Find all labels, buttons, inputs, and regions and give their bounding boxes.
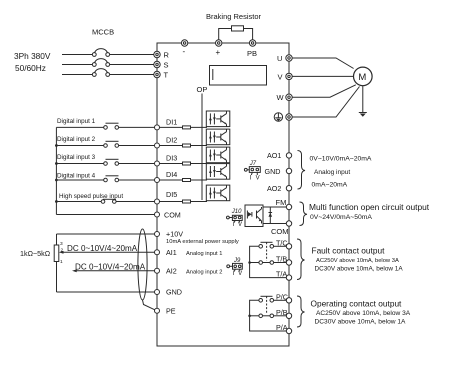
relay T contacts: [250, 242, 286, 277]
svg-text:+10V: +10V: [166, 230, 183, 239]
label AC250V operating: [316, 310, 411, 317]
label Digital input 3: [57, 154, 96, 161]
shield ellipse: [138, 229, 147, 300]
svg-text:10mA external power supply: 10mA external power supply: [166, 239, 239, 245]
wire common rail left: [55, 127, 57, 214]
wire motor to ground: [362, 86, 364, 113]
diode FM clamp: [269, 207, 273, 224]
terminal +10V: [155, 232, 160, 237]
jumper J9: [227, 263, 243, 271]
svg-text:1kΩ~5kΩ: 1kΩ~5kΩ: [20, 249, 51, 258]
terminal DI3: [155, 161, 160, 166]
wire FM output top: [263, 206, 286, 208]
jumper J10: [227, 215, 243, 222]
svg-text:DC 0~10V/4~20mA: DC 0~10V/4~20mA: [67, 244, 138, 253]
svg-text:Operating contact output: Operating contact output: [311, 299, 403, 309]
svg-text:Analog input: Analog input: [314, 169, 350, 176]
label DC30V fault: [315, 265, 404, 272]
wire AI1 row with wiper arrow: [59, 251, 155, 254]
node OP: [197, 85, 208, 94]
label AC250V fault: [316, 258, 399, 264]
terminal plus: [216, 40, 222, 46]
label 0mA~20mA: [312, 181, 348, 188]
resistor braking: [232, 26, 244, 31]
brace fault contact: [297, 239, 305, 280]
switch digital input 4: [56, 176, 154, 182]
svg-text:AO1: AO1: [267, 151, 281, 160]
ground symbol in circle: [274, 113, 282, 121]
terminal DI5: [155, 199, 160, 204]
wire FM output bottom: [263, 223, 286, 225]
terminal AI1: [155, 250, 160, 255]
junction rail DI5: [55, 200, 58, 203]
svg-text:T/A: T/A: [276, 270, 287, 279]
potentiometer 1k-5k: [54, 234, 59, 292]
terminal COM left: [155, 212, 160, 217]
label DC30V operating: [315, 318, 407, 325]
svg-text:AC250V above 10mA, below 3A: AC250V above 10mA, below 3A: [316, 258, 399, 264]
terminal T/A: [286, 275, 291, 280]
svg-text:Braking Resistor: Braking Resistor: [206, 12, 262, 21]
wire earth to motor: [292, 87, 359, 118]
label 3Ph 380V / 50/60Hz: [14, 51, 51, 73]
svg-text:0V~10V/0mA~20mA: 0V~10V/0mA~20mA: [310, 156, 372, 163]
resistor DI4: [160, 179, 208, 182]
terminal minus: [181, 40, 187, 46]
svg-text:GND: GND: [265, 167, 281, 176]
svg-text:M: M: [358, 72, 366, 83]
breaker MCCB pole 1: [92, 49, 109, 57]
svg-text:T/B: T/B: [276, 255, 287, 264]
opto-coupler DI4: [206, 164, 230, 180]
wire braking resistor loop: [219, 29, 253, 43]
wire supply phase T: [62, 74, 154, 76]
svg-text:DC 0~10V/4~20mA: DC 0~10V/4~20mA: [75, 263, 146, 272]
svg-text:DI4: DI4: [166, 170, 177, 179]
opto-coupler DI5: [206, 185, 230, 201]
terminal W: [286, 94, 292, 100]
wire AI2 row with arrow: [72, 269, 155, 272]
svg-text:I: I: [250, 176, 252, 182]
svg-text:Analog input 2: Analog input 2: [186, 270, 222, 276]
breaker MCCB pole 3: [92, 69, 109, 77]
junction rail DI2: [55, 144, 58, 147]
label Operating contact output: [311, 299, 403, 309]
svg-text:DI5: DI5: [166, 190, 177, 199]
terminal PB: [249, 40, 255, 46]
terminal P/C: [286, 298, 291, 303]
terminal AI2: [155, 268, 160, 273]
label Multi function open circuit output: [309, 202, 430, 212]
terminal FM: [286, 204, 291, 209]
terminal U: [286, 55, 292, 61]
svg-text:R: R: [164, 51, 170, 60]
ground motor: [359, 113, 367, 117]
svg-text:AC250V above 10mA, below 3A: AC250V above 10mA, below 3A: [316, 310, 411, 317]
switch digital input 2: [56, 141, 154, 147]
label Digital input 1: [57, 118, 96, 125]
terminal V: [286, 73, 292, 79]
svg-text:T/C: T/C: [276, 238, 288, 247]
breaker MCCB label: [92, 28, 114, 37]
svg-text:J7: J7: [249, 161, 257, 167]
motor M: [354, 67, 373, 86]
svg-text:P/A: P/A: [276, 323, 288, 332]
terminal P/A: [286, 328, 291, 333]
brace operating contact: [297, 296, 305, 327]
wire W to motor: [292, 85, 356, 97]
terminal AO1: [286, 153, 291, 158]
jumper J7: [244, 167, 260, 175]
label High speed pulse input: [59, 193, 123, 200]
label 0V~24V/0mA~50mA: [310, 214, 372, 221]
svg-text:Multi function open circuit ou: Multi function open circuit output: [309, 202, 430, 212]
wire supply phase S: [62, 64, 154, 66]
svg-text:Digital input 2: Digital input 2: [57, 136, 96, 143]
terminal GND left: [155, 290, 160, 295]
terminal T/B: [286, 260, 291, 265]
terminal COM right: [286, 221, 291, 226]
svg-text:3: 3: [60, 241, 63, 247]
terminal AO2: [286, 186, 291, 191]
switch digital input 1: [56, 123, 154, 129]
label Fault contact output: [312, 246, 386, 256]
svg-text:V: V: [278, 72, 283, 81]
resistor DI2: [160, 144, 208, 147]
switch digital input 3: [56, 159, 154, 165]
opto-coupler DI2: [206, 129, 230, 145]
terminal PE: [155, 308, 160, 313]
wire OP rail: [201, 94, 203, 201]
svg-text:P/C: P/C: [276, 292, 288, 301]
pot pin 1: [60, 259, 63, 265]
svg-text:FM: FM: [276, 198, 287, 207]
inverter main outline: [157, 43, 289, 346]
label Braking Resistor: [206, 12, 262, 21]
svg-text:T: T: [164, 71, 169, 80]
svg-text:DI3: DI3: [166, 154, 177, 163]
svg-text:DI2: DI2: [166, 136, 177, 145]
wire +10V row: [57, 233, 155, 235]
wire COM row: [56, 214, 154, 216]
pot pin 2: [61, 248, 64, 254]
keypad box: [210, 66, 267, 86]
label Digital input 4: [57, 173, 96, 180]
resistor DI5: [160, 200, 208, 203]
junction relay T rail: [248, 261, 251, 264]
resistor DI3: [160, 162, 208, 165]
svg-text:J10: J10: [231, 209, 242, 215]
opto-coupler DI1: [206, 111, 230, 127]
label Analog input: [314, 169, 350, 176]
terminal P/B: [286, 313, 291, 318]
svg-text:Digital input 3: Digital input 3: [57, 154, 96, 161]
switch high speed pulse input: [56, 199, 154, 203]
svg-text:S: S: [164, 61, 169, 70]
svg-text:AI2: AI2: [166, 267, 177, 276]
wire GND row: [57, 291, 155, 293]
svg-text:+: +: [216, 48, 221, 57]
opto-coupler FM: [245, 205, 263, 227]
terminal R: [154, 51, 160, 57]
terminal PE-earth: [286, 114, 292, 120]
opto-coupler DI3: [206, 147, 230, 163]
resistor DI1: [160, 126, 208, 129]
svg-text:V: V: [238, 271, 242, 277]
svg-text:3Ph 380V: 3Ph 380V: [14, 51, 51, 61]
wire U to motor: [292, 58, 353, 69]
wire supply phase R: [62, 54, 154, 56]
svg-text:0mA~20mA: 0mA~20mA: [312, 181, 348, 188]
junction rail DI4: [55, 179, 58, 182]
svg-text:AO2: AO2: [267, 184, 281, 193]
svg-text:Fault contact output: Fault contact output: [312, 246, 386, 256]
brace multi function output: [300, 202, 308, 226]
svg-text:DC30V above 10mA, below 1A: DC30V above 10mA, below 1A: [315, 265, 404, 272]
terminal DI2: [155, 143, 160, 148]
junction relay P rail: [248, 315, 251, 318]
relay P contacts: [250, 296, 286, 331]
svg-text:DI1: DI1: [166, 118, 177, 127]
junction rail DI3: [55, 162, 58, 165]
svg-text:GND: GND: [166, 288, 182, 297]
brace analog output: [298, 151, 306, 190]
breaker MCCB pole 2: [92, 59, 109, 67]
pot pin 3: [60, 241, 63, 247]
svg-text:1: 1: [60, 259, 63, 265]
terminal S: [154, 61, 160, 67]
wire V to motor: [292, 75, 353, 77]
svg-text:P/B: P/B: [276, 308, 288, 317]
svg-text:W: W: [277, 93, 285, 102]
svg-text:AI1: AI1: [166, 248, 177, 257]
svg-text:U: U: [277, 54, 282, 63]
svg-text:PE: PE: [166, 307, 176, 316]
label Digital input 2: [57, 136, 96, 143]
svg-text:J9: J9: [233, 258, 241, 264]
svg-text:50/60Hz: 50/60Hz: [15, 63, 46, 73]
svg-text:MCCB: MCCB: [92, 28, 114, 37]
svg-text:COM: COM: [271, 227, 289, 236]
svg-text:COM: COM: [164, 211, 181, 220]
label 0V~10V/0mA~20mA: [310, 156, 372, 163]
svg-text:V: V: [256, 176, 260, 182]
terminal GND right: [286, 168, 291, 173]
terminal DI1: [155, 125, 160, 130]
svg-text:Digital input 1: Digital input 1: [57, 118, 96, 125]
svg-text:I: I: [233, 222, 235, 228]
svg-text:PB: PB: [247, 49, 257, 58]
svg-text:OP: OP: [197, 85, 208, 94]
wire shield to PE: [143, 300, 155, 310]
terminal T/C: [286, 244, 291, 249]
svg-text:-: -: [183, 47, 186, 56]
terminal T: [154, 71, 160, 77]
svg-text:Digital input 4: Digital input 4: [57, 173, 96, 180]
svg-text:V: V: [238, 222, 242, 228]
terminal DI4: [155, 178, 160, 183]
svg-text:Analog input 1: Analog input 1: [186, 251, 222, 257]
svg-text:DC30V above 10mA, below 1A: DC30V above 10mA, below 1A: [315, 318, 407, 325]
svg-text:0V~24V/0mA~50mA: 0V~24V/0mA~50mA: [310, 214, 372, 221]
